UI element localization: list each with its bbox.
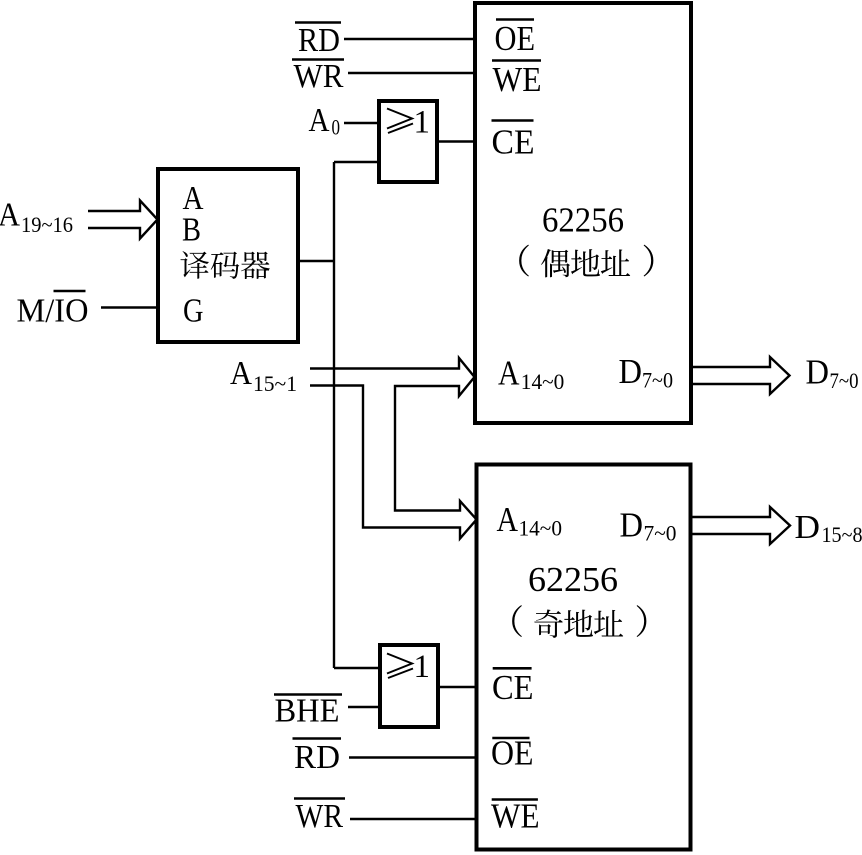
bus A15~1 double-line with arrowheads into U1 and U2 (310, 358, 477, 539)
overline M/IO (IO part) (54, 290, 86, 293)
wire WR to U1 WE (348, 72, 473, 74)
svg-text:WE: WE (493, 60, 542, 99)
label WR bottom (296, 798, 344, 835)
or-gate G1 (>=1) box (379, 101, 437, 182)
svg-text:19~16: 19~16 (21, 212, 73, 237)
sram U2 62256 odd-address box (477, 465, 691, 850)
value label U1 （偶地址） (519, 245, 653, 278)
label D15~8 output (795, 509, 862, 547)
pin label decoder A (183, 180, 204, 217)
label M/IO (17, 293, 89, 330)
svg-text:CE: CE (492, 123, 535, 162)
svg-text:0: 0 (332, 115, 341, 140)
svg-text:WR: WR (296, 798, 344, 835)
overline WR bottom (294, 797, 345, 800)
bus D7~0 arrow out of U1 (692, 357, 790, 394)
overline RD bottom (293, 737, 342, 740)
svg-text:A: A (309, 102, 330, 139)
overline U1 WE (492, 59, 541, 62)
pin label U2 WE (491, 797, 540, 836)
svg-text:B: B (182, 212, 201, 249)
svg-text:7~0: 7~0 (644, 521, 677, 546)
or-gate G2 (>=1) box (380, 645, 438, 727)
wire M/IO to decoder G (101, 306, 156, 308)
label A15~1 (230, 355, 297, 396)
svg-text:M/IO: M/IO (17, 293, 89, 330)
svg-text:BHE: BHE (275, 693, 340, 730)
label A19~16 (0, 197, 73, 238)
label 1 of G2 (414, 649, 431, 685)
value label decoder 译码器 (180, 251, 269, 279)
overline U2 OE (492, 737, 529, 740)
label RD bottom (294, 739, 340, 776)
wire G1 output to U1 CE (437, 140, 474, 142)
overline RD top (295, 21, 341, 24)
svg-text:WE: WE (491, 797, 540, 836)
wire decoder output (298, 260, 334, 262)
svg-text:1: 1 (414, 649, 431, 685)
svg-text:CE: CE (492, 668, 534, 707)
sram U1 62256 even-address box (475, 3, 691, 423)
svg-text:RD: RD (298, 22, 340, 59)
svg-text:A: A (498, 354, 520, 393)
wire WR to U2 WE (350, 818, 475, 820)
overline U2 CE (493, 667, 532, 670)
pin label U2 CE (492, 668, 534, 707)
wire RD to U1 OE (344, 38, 473, 40)
pin label U1 OE (495, 19, 536, 58)
wire G2 output to U2 CE (438, 686, 476, 688)
svg-text:14~0: 14~0 (521, 369, 565, 394)
svg-text:7~0: 7~0 (642, 368, 673, 393)
wire select vertical (333, 162, 335, 668)
wire RD to U2 OE (349, 756, 475, 758)
pin label U2 OE (491, 734, 534, 773)
pin label U2 D7~0 (620, 506, 677, 546)
svg-text:OE: OE (491, 734, 534, 773)
label D7~0 output (806, 353, 859, 394)
bus D7~0 arrow out of U2 (692, 507, 790, 544)
label 1 of G1 (414, 105, 431, 141)
label BHE (275, 693, 340, 730)
svg-text:62256: 62256 (528, 560, 618, 599)
svg-text:RD: RD (294, 739, 340, 776)
svg-text:D: D (620, 506, 644, 545)
pin label decoder G (183, 293, 204, 330)
overline U2 WE (492, 798, 538, 801)
svg-text:D: D (795, 509, 821, 546)
label RD top (pin RD) (298, 22, 340, 59)
pin label decoder B (182, 212, 201, 249)
svg-text:OE: OE (495, 19, 536, 58)
overline U1 CE (492, 119, 534, 122)
svg-text:1: 1 (414, 105, 431, 141)
symbol >=1 of G1 (387, 109, 413, 134)
decoder U3 (译码器) box (158, 169, 298, 342)
svg-text:D: D (806, 353, 830, 392)
pin label U1 WE (493, 60, 542, 99)
value label U2 （奇地址） (512, 605, 646, 638)
svg-text:A: A (497, 500, 519, 539)
overline BHE (274, 693, 342, 696)
wire G2 input 1 (334, 667, 378, 669)
svg-text:WR: WR (294, 58, 344, 95)
pin label U2 A14~0 (497, 500, 563, 541)
symbol >=1 of G2 (387, 654, 413, 679)
bus A19~16 arrow into decoder (88, 201, 158, 239)
svg-text:15~8: 15~8 (822, 522, 862, 547)
svg-text:D: D (619, 352, 643, 391)
label A0 (309, 102, 341, 140)
pin label U1 D7~0 (619, 352, 674, 393)
svg-text:15~1: 15~1 (253, 371, 297, 396)
pin label U1 CE (492, 123, 535, 162)
svg-text:14~0: 14~0 (519, 516, 563, 541)
value label U2 62256 (528, 560, 618, 599)
label WR top (pin WR) (294, 58, 344, 95)
svg-text:7~0: 7~0 (830, 368, 859, 393)
overline U1 OE (496, 18, 534, 21)
svg-text:A: A (230, 355, 252, 392)
value label U1 62256 (542, 201, 624, 240)
wire G1 input 2 (334, 161, 377, 163)
overline WR top (292, 58, 344, 61)
pin label U1 A14~0 (498, 354, 564, 395)
wire BHE to G2 input (348, 706, 378, 708)
svg-text:62256: 62256 (542, 201, 624, 240)
wire A0 to G1 input (344, 122, 377, 124)
svg-text:A: A (0, 197, 20, 234)
svg-text:G: G (183, 293, 204, 330)
